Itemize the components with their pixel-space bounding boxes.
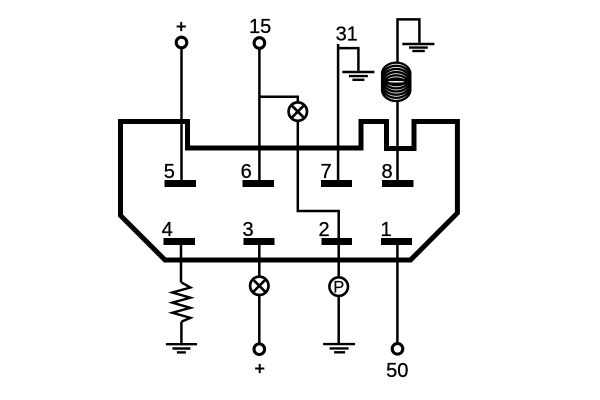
svg-text:5: 5 <box>164 161 175 183</box>
svg-text:6: 6 <box>241 161 252 183</box>
svg-text:15: 15 <box>249 16 271 38</box>
wire resistor to ground <box>180 322 183 344</box>
wire pressure switch to ground <box>337 296 340 344</box>
svg-text:7: 7 <box>321 161 332 183</box>
svg-text:50: 50 <box>386 360 408 382</box>
wire coil bottom to pin 8 <box>396 101 399 181</box>
pin 8 bar <box>382 180 414 187</box>
pin 6 bar <box>243 180 275 187</box>
terminal 15 <box>254 38 265 49</box>
pin 3 bar <box>244 238 275 245</box>
wire + terminal to pin 5 <box>180 48 183 180</box>
wire branch from pin6 wire to lamp <box>259 97 297 103</box>
pressure switch P <box>329 277 348 296</box>
wire lamp to + terminal (bottom) <box>258 295 261 344</box>
wire coil top to ground (top right) <box>398 19 420 63</box>
terminal + (top) <box>176 37 187 48</box>
wire stub 31 to ground <box>338 48 358 71</box>
wire pin 1 to terminal 50 <box>396 245 399 344</box>
terminal 50 <box>392 344 403 355</box>
wire pin 4 to resistor <box>180 245 183 282</box>
pin 4 bar <box>164 238 196 245</box>
pin 7 bar <box>321 180 352 187</box>
terminal + (bottom) <box>254 344 265 355</box>
lamp (upper) <box>289 102 307 120</box>
resistor R1 <box>172 282 190 321</box>
ground (below resistor) <box>166 344 197 352</box>
wire pin 2 to pressure switch <box>337 245 340 277</box>
svg-text:1: 1 <box>380 219 391 241</box>
ground (near 31) <box>342 72 374 80</box>
ground (below P) <box>323 344 355 352</box>
svg-text:8: 8 <box>381 161 392 183</box>
wire 31 to pin 7 <box>337 44 340 180</box>
svg-text:31: 31 <box>336 24 358 46</box>
ground (top right) <box>402 44 434 51</box>
svg-text:3: 3 <box>242 219 253 241</box>
wire pin 3 to lamp <box>258 245 261 277</box>
label + (bottom) <box>255 364 264 373</box>
pin 2 bar <box>322 238 353 245</box>
pin 1 bar <box>381 238 412 245</box>
label + (top) <box>177 22 186 31</box>
coil L1 <box>382 63 410 101</box>
svg-text:4: 4 <box>162 219 173 241</box>
relay housing outline <box>121 122 458 261</box>
lamp (lower) <box>250 277 268 295</box>
pin 5 bar <box>165 180 197 187</box>
svg-text:P: P <box>333 279 344 297</box>
wire lamp to pin 2 (jog) <box>298 121 339 238</box>
svg-text:2: 2 <box>318 219 329 241</box>
wire 15 terminal to pin 6 <box>258 48 261 180</box>
